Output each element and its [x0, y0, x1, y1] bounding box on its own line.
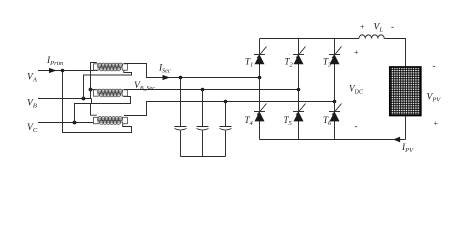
svg-text:-: - — [355, 121, 358, 131]
svg-text:-: - — [433, 61, 436, 71]
wire TR2 top-left lead — [91, 89, 97, 91]
transformer TR2 coil — [94, 89, 128, 97]
wire leg2 — [298, 39, 300, 140]
svg-text:VA: VA — [27, 73, 37, 84]
PV panel — [390, 67, 421, 116]
wire line3 from TR3 to leg3 — [124, 102, 335, 116]
wire left long vertical from node A — [63, 71, 132, 133]
node junction dot on V_C — [73, 121, 77, 125]
node dot cap3 on line3 — [224, 100, 228, 104]
wire TR1 secondary under-loop — [84, 70, 132, 99]
svg-text:VC: VC — [27, 123, 38, 134]
inductor L — [359, 35, 384, 39]
capacitor C1 — [175, 78, 187, 157]
thyristor T1 — [254, 54, 265, 56]
wire PV bottom lead — [405, 116, 407, 140]
node junction dot coil2 top lead — [89, 88, 93, 92]
wire TR1 primary left lead — [91, 63, 97, 99]
thyristor T2 — [293, 54, 304, 56]
svg-text:VPV: VPV — [427, 93, 442, 104]
svg-text:T2: T2 — [285, 57, 294, 69]
wire leg3 — [334, 39, 336, 140]
svg-text:VL: VL — [374, 23, 384, 34]
capacitor C2 — [197, 90, 209, 157]
wire I_Prim arrow — [49, 68, 57, 73]
svg-text:ISec: ISec — [158, 64, 171, 75]
svg-text:+: + — [360, 23, 365, 32]
wire V_A phase input — [38, 70, 98, 72]
node dot cap2 on line2 — [201, 88, 205, 92]
wire leg1 — [259, 39, 261, 140]
node dot line2 to leg2 — [297, 88, 301, 92]
thyristor T5 — [293, 111, 304, 113]
wire capacitor bottom bus — [181, 156, 226, 158]
wire V_B phase input — [38, 98, 92, 100]
svg-text:T1: T1 — [245, 57, 253, 69]
svg-text:+: + — [433, 119, 438, 128]
svg-text:IPV: IPV — [401, 143, 414, 154]
wire TR2 under-loop — [92, 97, 131, 104]
node dot cap1 on line1 — [179, 76, 183, 80]
wire bridge top bus — [260, 38, 360, 40]
svg-text:VDC: VDC — [349, 84, 364, 96]
wire TR3 feed riser from V_C — [75, 104, 97, 123]
svg-text:T4: T4 — [245, 115, 254, 127]
node dot line3 to leg3 — [333, 100, 337, 104]
transformer TR3 coil — [94, 117, 128, 125]
thyristor T3 — [329, 54, 340, 56]
capacitor C3 — [220, 102, 232, 157]
svg-text:IPrim: IPrim — [46, 56, 63, 67]
thyristor T6 — [329, 111, 340, 113]
wire bridge bottom bus — [260, 139, 406, 141]
wire top bus to PV — [384, 39, 405, 68]
svg-text:+: + — [354, 48, 359, 57]
node junction dot on V_B at riser — [82, 97, 86, 101]
svg-text:VB_Sec: VB_Sec — [134, 81, 155, 92]
wire line2 V_B_Sec to leg2 — [124, 89, 299, 91]
wire V_C phase input — [38, 122, 97, 124]
wire I_Sec arrow — [163, 75, 171, 80]
node dot line1 to leg1 — [258, 76, 262, 80]
svg-text:T3: T3 — [323, 57, 332, 69]
svg-text:T5: T5 — [284, 115, 293, 127]
svg-text:T6: T6 — [323, 115, 332, 127]
wire I_PV arrow — [393, 137, 400, 143]
svg-text:-: - — [391, 22, 394, 32]
transformer TR1 coil — [94, 63, 128, 71]
node junction dot A — [61, 69, 65, 73]
wire TR1 secondary lead to I_Sec line (line1) — [124, 64, 260, 78]
thyristor T4 — [254, 111, 265, 113]
svg-text:VB: VB — [27, 99, 37, 110]
